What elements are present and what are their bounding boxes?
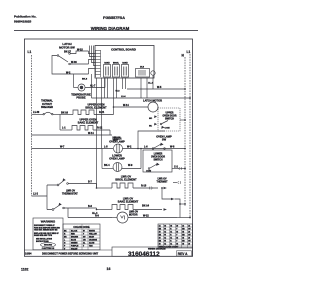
wire door switch to N <box>172 168 185 170</box>
svg-text:L-5: L-5 <box>104 146 108 149</box>
wire lamp pair vertical <box>140 149 142 169</box>
svg-text:20: 20 <box>188 237 190 239</box>
svg-text:OVEN LAMP: OVEN LAMP <box>109 140 125 144</box>
upper oven broil element <box>60 110 114 115</box>
connector pair on broil wire <box>149 187 152 190</box>
svg-text:14: 14 <box>159 224 161 227</box>
warning box text <box>34 224 61 243</box>
junction com wire lamp row <box>137 148 139 150</box>
warning box oval <box>41 243 56 247</box>
junction at N bus y168 <box>184 168 186 170</box>
probe center dot <box>80 86 83 89</box>
wire thermostat sensor <box>173 182 177 184</box>
wire spec grid table <box>158 224 193 249</box>
wire board drop 6 <box>116 78 118 98</box>
svg-text:W-2: W-2 <box>66 72 71 75</box>
thermal cutout breaker label <box>41 100 53 110</box>
upper oven bake element <box>60 126 110 136</box>
svg-text:10: 10 <box>159 231 161 233</box>
junction thermostat top wire <box>96 187 98 189</box>
wire long row to L1 bus <box>92 97 191 99</box>
wire thermostat drop to motor row <box>67 208 69 218</box>
lower oven door switch box <box>143 150 172 172</box>
svg-text:LWR OV: LWR OV <box>66 191 76 193</box>
wire board drop 7 <box>122 78 124 89</box>
wire board drop 8 <box>125 78 127 89</box>
wire board to N bus <box>127 88 185 90</box>
svg-text:GRAY: GRAY <box>89 236 95 239</box>
svg-text:CONTROL BOARD: CONTROL BOARD <box>111 48 136 52</box>
svg-text:NO: NO <box>149 118 153 120</box>
svg-text:W: W <box>83 231 85 233</box>
svg-text:SWITCH: SWITCH <box>165 119 174 121</box>
wire board drop 5 <box>113 78 115 115</box>
svg-text:BLUE: BLUE <box>71 240 77 242</box>
svg-text:COM: COM <box>146 171 151 173</box>
wire board drop 10 <box>146 78 148 98</box>
svg-text:W-9: W-9 <box>128 164 133 167</box>
svg-text:OVEN DOOR: OVEN DOOR <box>162 116 176 118</box>
svg-text:20: 20 <box>188 231 190 233</box>
svg-text:1102: 1102 <box>21 268 28 272</box>
svg-text:BK-14: BK-14 <box>142 205 150 208</box>
rev box <box>177 251 192 256</box>
warning box <box>33 218 63 250</box>
svg-text:SAME SIZE AND TYPE: SAME SIZE AND TYPE <box>34 234 53 237</box>
svg-text:BROIL ELEMENT: BROIL ELEMENT <box>85 106 107 110</box>
wire board drop 4 <box>107 78 109 98</box>
wire board drop 3 <box>104 78 106 98</box>
svg-text:BK-27: BK-27 <box>64 51 72 54</box>
wire thermostat top to broil row <box>96 184 98 189</box>
svg-text:DISCONNECT POWER BEFORE SERVIC: DISCONNECT POWER BEFORE SERVICING UNIT <box>42 252 99 255</box>
svg-text:L1-30: L1-30 <box>33 111 40 114</box>
header rule <box>14 30 198 32</box>
svg-text:14: 14 <box>170 242 172 245</box>
svg-text:W-8: W-8 <box>170 146 175 149</box>
svg-text:B-8: B-8 <box>88 205 93 208</box>
wire pilot drop <box>152 75 154 89</box>
svg-text:W-3: W-3 <box>116 91 121 93</box>
relay K3 lower bake <box>122 62 129 78</box>
svg-text:10/94: 10/94 <box>25 251 32 255</box>
svg-text:LWR OV: LWR OV <box>129 212 139 214</box>
wire motor row <box>68 217 112 219</box>
upper oven door switch label <box>162 113 176 121</box>
svg-text:316046112: 316046112 <box>128 251 160 258</box>
svg-text:LOWER: LOWER <box>154 154 163 156</box>
arrow broil end <box>164 187 167 189</box>
wire thermostat lower to bake row <box>96 208 98 210</box>
lwr ov broil element <box>97 183 159 188</box>
svg-text:12: 12 <box>164 237 166 239</box>
svg-text:BREAKER: BREAKER <box>41 106 53 109</box>
svg-text:BAKE ELEMENT: BAKE ELEMENT <box>78 121 99 125</box>
wire bundle to board <box>89 46 96 75</box>
relay K2 broil <box>113 63 120 78</box>
svg-text:BAKE: BAKE <box>104 62 110 65</box>
svg-text:COLOR CODE: COLOR CODE <box>73 226 90 229</box>
wire right junction row <box>180 203 185 205</box>
svg-text:W-14: W-14 <box>88 132 94 135</box>
lower oven door switch <box>146 163 160 173</box>
oven temp probe <box>74 74 106 91</box>
svg-text:W-14: W-14 <box>123 104 129 107</box>
svg-text:LWR OV: LWR OV <box>157 179 167 181</box>
svg-text:R-21: R-21 <box>99 111 105 114</box>
svg-text:BAKE ELEMENT: BAKE ELEMENT <box>118 200 139 204</box>
svg-text:12: 12 <box>164 231 166 233</box>
svg-text:W-7: W-7 <box>60 146 65 149</box>
svg-text:GROUND: GROUND <box>44 245 53 247</box>
svg-text:OVEN DOOR: OVEN DOOR <box>151 157 165 159</box>
wire door switch to N bus <box>180 119 185 121</box>
svg-text:FGB557FSA: FGB557FSA <box>103 16 125 20</box>
svg-text:L1: L1 <box>28 50 32 54</box>
wire L1 right bus <box>189 54 191 217</box>
svg-text:10: 10 <box>159 237 161 239</box>
svg-text:B-7: B-7 <box>88 181 93 184</box>
svg-text:L1-4: L1-4 <box>121 95 126 98</box>
motor lower oven <box>112 212 177 223</box>
connector pair on door switch wire <box>179 167 182 170</box>
svg-text:THIS UNIT. WIRING MUST BE: THIS UNIT. WIRING MUST BE <box>34 230 58 232</box>
svg-text:CAUTION US: CAUTION US <box>42 247 55 250</box>
svg-text:Publication No.: Publication No. <box>14 15 37 19</box>
svg-text:W-15: W-15 <box>77 49 83 52</box>
svg-text:20: 20 <box>176 225 178 227</box>
upper oven temp stack labels <box>113 137 121 142</box>
svg-text:W-36: W-36 <box>71 61 77 64</box>
wire N right bus <box>184 57 186 206</box>
oven temp probe label <box>71 93 91 100</box>
junction at N bus y89 <box>184 88 186 90</box>
upper oven lamp label <box>109 137 125 144</box>
upper oven door switch box <box>158 108 180 131</box>
svg-text:5995418925: 5995418925 <box>14 19 31 23</box>
svg-text:SWITCH: SWITCH <box>153 160 162 162</box>
lwr ov bake element <box>97 205 163 210</box>
upper oven bake element label <box>78 118 99 125</box>
svg-text:THERMOSTAT: THERMOSTAT <box>62 193 78 196</box>
svg-text:BROWN: BROWN <box>71 237 79 239</box>
junction at N bus y120 <box>184 119 186 121</box>
lower oven lamp label <box>109 154 125 161</box>
svg-text:24: 24 <box>188 224 190 227</box>
svg-text:AL-7: AL-7 <box>90 85 96 88</box>
junction lower bake row <box>96 209 98 211</box>
svg-text:AL-4: AL-4 <box>92 212 98 215</box>
upper oven door switch <box>149 115 170 129</box>
svg-text:COM: COM <box>165 128 170 130</box>
svg-text:16: 16 <box>176 237 178 239</box>
wire board drop 2 <box>101 78 103 149</box>
svg-text:WHITE: WHITE <box>89 231 96 233</box>
lwr ov broil element label <box>115 175 137 182</box>
svg-text:BAKE: BAKE <box>122 62 128 65</box>
lamp upper oven <box>114 144 186 153</box>
control board box <box>95 46 154 79</box>
svg-text:W-5: W-5 <box>157 86 162 89</box>
svg-text:REV A: REV A <box>178 252 188 256</box>
wire motor row to L1 <box>177 217 190 219</box>
relay K4 <box>136 67 150 78</box>
wire drop left of board <box>91 74 93 98</box>
svg-text:C-2: C-2 <box>174 166 179 169</box>
svg-text:22: 22 <box>182 225 184 227</box>
lower oven motor label <box>129 212 139 217</box>
svg-text:NC: NC <box>149 126 153 128</box>
latch motor switch label <box>59 42 75 49</box>
thermostat switch lower <box>52 203 96 211</box>
svg-text:L-6: L-6 <box>144 146 148 149</box>
svg-text:WARNING: WARNING <box>41 220 56 224</box>
svg-text:R-22: R-22 <box>97 127 103 130</box>
color code entries <box>64 230 98 251</box>
wire broil step down <box>162 188 171 199</box>
svg-text:ALUM: ALUM <box>89 242 95 245</box>
lower oven thermostat loop <box>32 185 58 210</box>
wire latch contact bottom <box>70 63 88 65</box>
svg-text:18: 18 <box>170 225 172 227</box>
wire broil to bake drop <box>59 115 61 131</box>
svg-text:R-15: R-15 <box>141 185 147 188</box>
thermostat switch upper <box>57 178 96 186</box>
svg-text:L1-2: L1-2 <box>33 193 39 196</box>
svg-text:PURPLE: PURPLE <box>71 246 79 248</box>
svg-text:W-22: W-22 <box>143 215 149 218</box>
arrow bake end <box>164 208 167 210</box>
lwr ov thermostat label <box>62 191 78 196</box>
svg-text:14: 14 <box>170 230 172 233</box>
svg-text:BK-4: BK-4 <box>104 164 110 167</box>
bottom strip divider <box>24 249 112 251</box>
part number box <box>112 247 193 256</box>
oven lamp switch label <box>156 135 172 142</box>
svg-text:UPPER: UPPER <box>166 113 174 115</box>
upper oven broil element label <box>85 103 107 110</box>
wire motor junction <box>113 106 115 108</box>
wire latch common left <box>52 56 89 75</box>
svg-text:MOTOR SW: MOTOR SW <box>59 45 75 49</box>
main border frame <box>24 39 192 256</box>
svg-text:SW: SW <box>162 138 167 142</box>
junction L1 bus motor row <box>189 217 191 219</box>
thermal cutout breaker <box>32 112 61 115</box>
connector thermostat sensor <box>178 181 181 184</box>
svg-text:18: 18 <box>182 243 184 245</box>
wire lamp row <box>32 148 114 150</box>
svg-text:L1: L1 <box>187 50 191 54</box>
latch motor switch <box>57 53 70 65</box>
lamp lower oven <box>102 163 141 172</box>
connector J1 ladder <box>96 50 101 77</box>
color code table box <box>63 224 100 250</box>
svg-text:16: 16 <box>176 231 178 233</box>
wire latch contact top <box>70 51 88 54</box>
oven lamp switch <box>152 143 165 150</box>
arrow step2 <box>171 198 174 200</box>
svg-text:16: 16 <box>176 243 178 245</box>
svg-text:ORANGE: ORANGE <box>89 239 98 242</box>
lwr ov bake element label <box>118 197 139 204</box>
svg-text:BLACK: BLACK <box>71 230 78 233</box>
junction at L1 bus y98 <box>189 97 191 99</box>
svg-text:14: 14 <box>170 236 172 239</box>
svg-text:18: 18 <box>182 231 184 233</box>
latch motor <box>114 102 159 112</box>
wire L1 left bus <box>31 55 33 196</box>
junction lamp vertical <box>140 148 142 150</box>
svg-text:16: 16 <box>107 267 111 271</box>
pilot circle on board <box>151 71 155 75</box>
svg-text:18: 18 <box>182 237 184 239</box>
wire lamp2 feed vertical <box>101 149 103 169</box>
color code grid <box>63 224 100 250</box>
svg-text:10: 10 <box>159 243 161 245</box>
svg-text:20: 20 <box>188 243 190 245</box>
svg-text:THERMST: THERMST <box>156 181 168 183</box>
svg-text:PROBE: PROBE <box>76 96 85 100</box>
junction broil row <box>161 187 163 189</box>
svg-text:L-1: L-1 <box>62 127 66 130</box>
svg-text:AL-2: AL-2 <box>148 82 154 85</box>
svg-text:YELLOW: YELLOW <box>89 234 97 236</box>
wire row W-14 <box>32 134 113 136</box>
svg-text:WIRING DIAGRAM: WIRING DIAGRAM <box>91 26 130 31</box>
svg-text:BK-8: BK-8 <box>82 79 88 81</box>
svg-text:GREEN: GREEN <box>71 243 78 245</box>
svg-text:W-2: W-2 <box>127 146 132 149</box>
wire board drop 1 <box>96 78 98 188</box>
svg-text:MOTOR: MOTOR <box>129 215 138 217</box>
junction at N bus y148 <box>184 148 186 150</box>
wire door switch com down-left <box>138 131 165 149</box>
svg-text:OVEN LAMP: OVEN LAMP <box>109 157 125 161</box>
wire motor to bus column <box>179 204 181 218</box>
lower oven door switch label <box>151 154 165 162</box>
relay K1 bake <box>104 62 111 78</box>
wire board drop 9 <box>140 78 142 98</box>
svg-text:BROIL ELEMENT: BROIL ELEMENT <box>115 178 137 182</box>
svg-text:16: 16 <box>164 225 166 227</box>
wire step2 to junction <box>175 199 181 204</box>
header publication number <box>14 15 37 24</box>
svg-text:12: 12 <box>164 243 166 245</box>
junction dots right column <box>179 203 186 205</box>
svg-text:N: N <box>182 54 185 58</box>
svg-text:BK-16: BK-16 <box>61 112 69 115</box>
